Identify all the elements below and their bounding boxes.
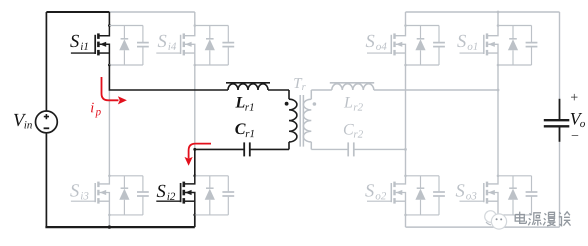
label Si3 [70, 184, 79, 196]
current arrow ip (top) [102, 77, 119, 100]
node dot leg4/Lr2 [497, 89, 500, 92]
wire: leg1 source stub to bottom rail [108, 215, 110, 227]
transistor So4 [367, 24, 407, 66]
wire: top rail gray (Si1 to Si4) [109, 11, 194, 13]
谈 [559, 212, 571, 226]
node dots on rails at leg4 [497, 11, 500, 14]
transistor So2 [367, 175, 407, 217]
wire: leg2 drain stub from top rail [194, 12, 196, 26]
电 [515, 212, 526, 224]
transistor Si2 [156, 174, 196, 216]
wire: leg1 gray mid segment (Si1 node down to Si3) [108, 90, 110, 176]
wire: leg2 gray mid segment (Si4 down to Cr1 node) [194, 65, 196, 149]
diode + capacitor of So3 cell [498, 176, 537, 215]
源 [528, 213, 541, 226]
transistor Si3 [71, 175, 111, 217]
漫 [543, 212, 555, 226]
polarity dot secondary [313, 102, 317, 106]
wire: black Cr1 node to capacitor [194, 149, 196, 175]
node dot leg3/Cr2 [404, 148, 407, 151]
watermark logo [485, 211, 507, 229]
polarity dot primary [285, 102, 289, 106]
label Si4 [158, 35, 167, 47]
label Si2 [157, 185, 166, 197]
wire: leg2 source stub to bottom rail [194, 215, 196, 227]
wire: leg3 gray mid segment [405, 65, 407, 176]
wire: top rail black (Vin+ to Si1 drain) [46, 11, 109, 13]
label Cr1 [235, 123, 245, 134]
transformer Tr secondary winding [303, 90, 311, 149]
wire: leg4 drain stub from top rail [497, 12, 499, 26]
inductor Lr2 [330, 83, 498, 90]
label Si1 [70, 35, 79, 47]
label ip [91, 103, 94, 113]
transistor Si1 [71, 24, 111, 66]
diode + capacitor of Si1 cell [109, 26, 148, 66]
wire: output bottom rail [406, 226, 560, 228]
transformer core lines [300, 95, 303, 147]
wire: leg3 source stub to bottom rail [405, 215, 407, 227]
capacitor Cr1 [244, 142, 289, 156]
label So4 [366, 35, 375, 47]
wire: secondary top to Lr2 [311, 89, 332, 91]
label So1 [457, 35, 466, 47]
wire: output top rail [406, 11, 560, 13]
diode + capacitor of Si2 cell [195, 176, 234, 215]
transistor So3 [460, 175, 500, 217]
output capacitor Vo [559, 12, 561, 99]
label Tr [294, 78, 302, 88]
capacitor Cr2 [348, 142, 405, 156]
diode + capacitor of So2 cell [406, 176, 445, 215]
wire: leg4 gray mid segment [497, 65, 499, 176]
diode + capacitor of Si4 cell [195, 26, 234, 66]
label Lr2 [344, 97, 352, 107]
label Vin [14, 114, 26, 126]
wire: leg1 drain stub from top rail [108, 12, 110, 26]
transistor Si4 [156, 24, 196, 66]
current arrow ip (at Cr1) [189, 144, 211, 159]
diode + capacitor of Si3 cell [109, 176, 148, 215]
polarity marks inside Vin [44, 114, 49, 119]
label Cr2 [344, 124, 354, 135]
inductor Lr1 [226, 83, 289, 90]
transformer Tr primary winding [289, 90, 297, 149]
diode + capacitor of So4 cell [406, 26, 445, 66]
node dot bottom rail leg1 [108, 225, 111, 228]
wire: secondary bottom to Cr2 [311, 148, 348, 150]
wire: bottom rail black [45, 226, 194, 228]
node dot leg2/Cr1 [193, 148, 196, 151]
wire: leg3 drain stub from top rail [405, 12, 407, 26]
watermark text 电源漫谈 [515, 212, 570, 226]
label So3 [456, 184, 465, 196]
diode + capacitor of So1 cell [498, 26, 537, 66]
wire: black Si1 source to Lr1 [109, 65, 228, 90]
label Lr1 [235, 97, 244, 107]
label +Vo- [571, 94, 578, 101]
transistor So1 [460, 24, 500, 66]
wire: leg4 source stub to bottom rail [497, 215, 499, 227]
source Vin [36, 12, 58, 227]
label So2 [365, 184, 374, 196]
